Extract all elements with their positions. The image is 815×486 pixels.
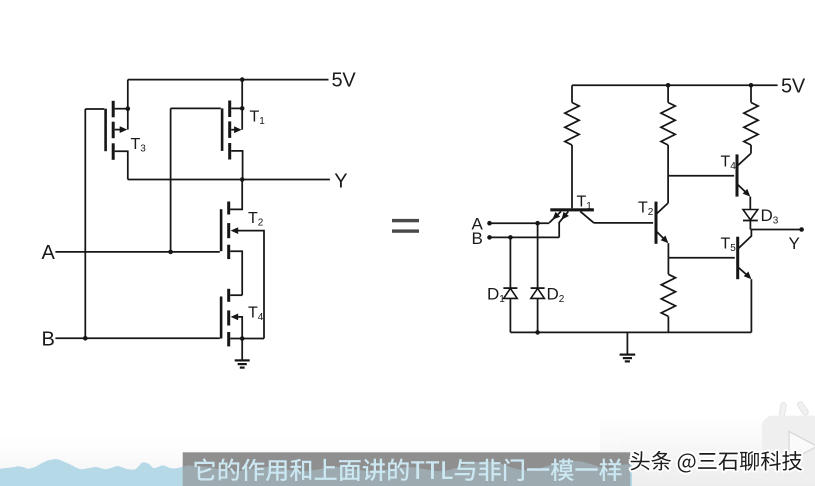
transistor T1 (MOSFET) <box>221 101 231 160</box>
wire T2 emitter down <box>667 243 669 258</box>
wire T2 source down <box>230 251 242 295</box>
resistor R3 <box>744 103 758 146</box>
wire R2 top lead <box>667 85 669 102</box>
subtitle bar <box>183 452 631 486</box>
svg-text:Y: Y <box>789 234 800 253</box>
equals sign <box>392 219 419 233</box>
svg-text:A: A <box>42 242 56 264</box>
ground (left circuit) <box>235 339 250 368</box>
wire output Y (right circuit) <box>750 229 801 231</box>
bottom-right light gradient <box>600 415 815 486</box>
wire R4 bottom lead <box>667 316 669 332</box>
wire 5V rail (left circuit) <box>128 79 329 81</box>
wire R1 top lead <box>571 85 573 102</box>
ground (right circuit) <box>620 332 636 361</box>
wire T1 top stub <box>231 107 242 109</box>
wire 5V rail (right circuit) <box>572 84 778 86</box>
wire R2 to T2 collector <box>667 145 669 203</box>
watermark 头条@三石聊科技 <box>631 451 802 473</box>
wire T3 source to 5V <box>127 80 129 130</box>
junction B line / riser <box>83 336 88 341</box>
junction rail/R3 <box>749 83 754 88</box>
wire D2 anode to ground rail <box>537 298 539 332</box>
wire T4 drain stub <box>230 294 242 296</box>
transistor T3 (MOSFET) <box>104 101 114 160</box>
wire D3 to Y node <box>749 221 751 230</box>
junction A / D2 <box>535 221 540 226</box>
wire R1 to T1 base <box>571 145 573 208</box>
wire input A (left circuit) <box>55 251 219 253</box>
wire T3 gate lead <box>85 108 104 110</box>
wire T3 drain <box>115 151 128 179</box>
junction T4 source / ground <box>240 336 245 341</box>
diode D2 <box>531 288 545 298</box>
junction rail/R2 <box>666 83 671 88</box>
wire input B (left circuit) <box>55 337 219 339</box>
junction 5V rail / T1 source <box>240 77 245 82</box>
wire ground rail (right circuit) <box>510 331 751 333</box>
wire T1 collector to T2 base <box>594 222 653 224</box>
wire input B riser to T3 gate <box>84 109 86 338</box>
wire T1 drain <box>231 151 242 180</box>
wire input A (right circuit) <box>490 222 550 224</box>
wire T1 gate lead <box>171 107 221 109</box>
wire B to D1 cathode <box>509 237 511 287</box>
wire T3 body stub <box>115 129 122 131</box>
transistor T2 (NPN) <box>655 202 669 244</box>
T4 body arrow <box>231 314 239 321</box>
resistor R4 <box>661 274 675 316</box>
junction T1 source/body <box>240 106 245 111</box>
T1 body arrow <box>234 126 242 133</box>
junction ground rail / D2 <box>535 330 540 335</box>
wire T4 body down <box>237 317 242 339</box>
play button TV logo <box>762 401 815 480</box>
wire T4 emitter to D3 <box>749 197 751 210</box>
wire T2 emitter to T5 base <box>668 257 734 259</box>
transistor T4 (NPN) <box>736 154 751 197</box>
wire T2 collector to T4 base <box>668 175 734 177</box>
transistor T5 (NPN) <box>736 230 751 280</box>
junction B / D1 <box>508 235 513 240</box>
svg-text:B: B <box>42 328 55 350</box>
wire T2 body to source rail <box>237 231 264 339</box>
svg-text:5V: 5V <box>781 76 806 98</box>
wire T3 top stub <box>115 108 128 110</box>
resistor R1 <box>565 103 579 146</box>
wire T1 source to 5V <box>241 80 243 130</box>
wire T1 body stub <box>231 129 236 131</box>
junction Y / T1 drain / T2 drain <box>240 177 245 182</box>
T2 body arrow <box>231 227 239 234</box>
terminal B <box>487 235 492 240</box>
transistor T2 (MOSFET) <box>220 202 230 260</box>
wave showing through subtitle bar <box>0 459 632 486</box>
wire input B (right circuit) <box>490 236 560 238</box>
wire T2 drain to Y <box>230 180 242 210</box>
svg-text:5V: 5V <box>332 70 357 92</box>
T3 body arrow <box>120 126 128 133</box>
terminal A <box>487 221 492 226</box>
diode D1 <box>503 288 517 298</box>
transistor T4 (MOSFET) <box>220 289 230 347</box>
svg-text:B: B <box>472 229 483 248</box>
transistor T1 (multi-emitter NPN) <box>549 208 594 237</box>
junction A line / riser <box>168 250 173 255</box>
terminal Y <box>799 227 804 232</box>
wire T4 source to ground node <box>230 338 264 340</box>
wire R4 top lead <box>667 258 669 275</box>
wire R3 to T4 collector <box>750 145 752 154</box>
subtitle text 它的作用和上面讲的TTL与非门一模一样 <box>195 458 622 481</box>
wire A to D2 cathode <box>537 223 539 288</box>
svg-text:Y: Y <box>334 170 347 192</box>
diode D3 <box>743 210 758 221</box>
wire R3 top lead <box>750 85 752 102</box>
wire T5 emitter to ground rail <box>750 279 752 332</box>
resistor R2 <box>661 103 675 146</box>
decorative wave <box>0 459 632 486</box>
wire D1 anode to ground rail <box>509 298 511 332</box>
junction T3 source/body <box>126 106 131 111</box>
wire output Y (left circuit) <box>128 179 330 181</box>
wire input A riser to T1 gate <box>170 108 172 252</box>
